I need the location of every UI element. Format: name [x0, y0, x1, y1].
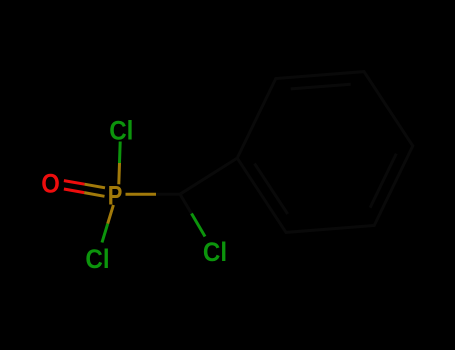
- wire C-Cl bond chlorine half: [192, 214, 206, 237]
- inner aromatic line (edge v4-v5 right): [370, 154, 396, 208]
- wire C(junction)-ipso carbon bond: [180, 158, 237, 194]
- wire P-Cl bottom-left bond: [108, 205, 114, 224]
- inner aromatic line (edge v2-v3 top): [291, 84, 351, 89]
- svg-text:Cl: Cl: [109, 114, 133, 145]
- benzene ring C6H5 (carbon skeleton): [237, 72, 413, 233]
- inner aromatic line (edge v6-v1 left): [255, 164, 288, 215]
- wire P-C bond carbon half: [156, 193, 180, 196]
- wire P=O double bond upper line: [64, 181, 85, 185]
- svg-text:Cl: Cl: [203, 236, 227, 267]
- wire P-Cl top bond: [117, 163, 121, 184]
- svg-text:Cl: Cl: [85, 243, 109, 274]
- wire P=O double bond lower line: [64, 189, 84, 193]
- svg-text:P: P: [108, 180, 123, 211]
- wire P-C bond phosphorus half: [126, 193, 157, 196]
- wire C-Cl bond carbon half: [180, 194, 192, 213]
- svg-text:O: O: [41, 167, 60, 198]
